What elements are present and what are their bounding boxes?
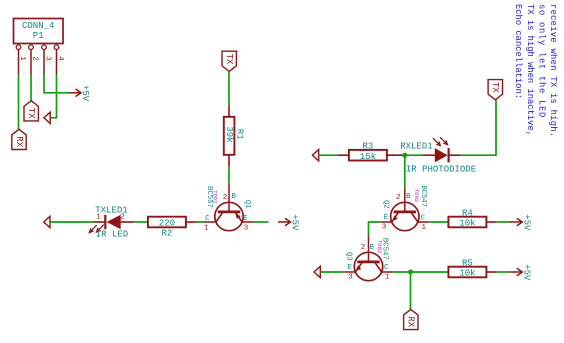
global label TX (top middle): [222, 51, 236, 71]
svg-text:10k: 10k: [459, 269, 475, 279]
wire arrow to TXLED1: [50, 221, 93, 223]
resistor R2 220: [148, 217, 186, 239]
svg-text:2: 2: [223, 194, 228, 202]
open arrow (Q3 emitter): [314, 266, 320, 277]
global label RX (bottom): [404, 309, 418, 329]
wire pin1 to RX label: [18, 75, 20, 130]
svg-text:Q2: Q2: [381, 200, 389, 209]
svg-text:R5: R5: [462, 259, 473, 269]
wire TXLED1 to R2: [134, 221, 148, 223]
svg-text:1: 1: [18, 56, 26, 61]
svg-text:IR LED: IR LED: [96, 229, 128, 239]
wire pin3 to +5V: [44, 75, 69, 93]
svg-text:R2: R2: [161, 229, 172, 239]
svg-text:receive when TX is high.: receive when TX is high.: [548, 4, 558, 137]
pin R5 right: [486, 271, 496, 273]
wire junction to RXLED1: [405, 154, 423, 156]
svg-text:TX is high when inactive,: TX is high when inactive,: [525, 4, 535, 136]
svg-text:2: 2: [396, 194, 401, 202]
photodiode RXLED1 (IR PHOTODIODE): [400, 137, 476, 175]
resistor R1 39k: [224, 117, 245, 155]
svg-text:1: 1: [204, 224, 209, 232]
pin RXLED1 cathode: [449, 154, 461, 156]
svg-text:TX: TX: [490, 82, 500, 93]
resistor R5 10k: [448, 259, 486, 279]
junction at RX node: [408, 270, 413, 275]
svg-text:R1: R1: [234, 129, 244, 140]
labels Q1: [204, 186, 251, 232]
wire R5 to +5V: [496, 271, 510, 273]
svg-text:2: 2: [120, 214, 125, 222]
svg-text:B: B: [231, 193, 236, 201]
wire R2 to Q1 collector: [198, 221, 206, 223]
svg-text:TX: TX: [224, 54, 234, 65]
pin R3 right: [387, 154, 405, 156]
labels Q2: [381, 185, 427, 232]
svg-text:E: E: [384, 214, 389, 222]
global label RX (from pin1): [12, 129, 26, 149]
power +5V (R4): [510, 214, 532, 231]
svg-text:C: C: [421, 215, 426, 223]
pin R3 left: [338, 154, 349, 156]
svg-text:+5V: +5V: [80, 85, 90, 102]
resistor R4 10k: [448, 209, 486, 229]
transistor Q3 BC547 NPN: [344, 236, 393, 281]
svg-text:10k: 10k: [459, 219, 475, 229]
svg-text:2: 2: [361, 244, 366, 252]
wire arrow to R3: [319, 154, 338, 156]
svg-text:1: 1: [96, 214, 101, 222]
svg-text:+5V: +5V: [521, 214, 531, 231]
svg-text:+5V: +5V: [521, 264, 531, 281]
svg-text:Q3: Q3: [345, 252, 353, 261]
wire junction to R5: [411, 271, 449, 273]
wire Q2 collector to R4: [429, 221, 448, 223]
wire pin2 to TX label: [30, 75, 32, 101]
open arrow (pin4): [44, 112, 50, 123]
power +5V (connector): [69, 85, 91, 102]
svg-text:3: 3: [244, 224, 249, 232]
wire R4 to +5V: [496, 221, 510, 223]
transistor Q2 BC547 NPN: [381, 187, 430, 230]
svg-text:R3: R3: [362, 142, 373, 152]
resistor R3 15k: [349, 142, 387, 162]
pin TXLED1 anode side: [93, 221, 104, 223]
wire junction to Q2 base: [404, 155, 406, 187]
svg-text:4: 4: [56, 56, 64, 61]
svg-text:+5V: +5V: [290, 214, 300, 231]
pin R1 bottom: [228, 155, 230, 167]
wire RXLED1 to TX label: [460, 100, 496, 155]
pin 4 of P1: [54, 45, 64, 75]
wire R1 to Q1 base: [228, 167, 230, 184]
svg-text:so only let the LED: so only let the LED: [537, 4, 547, 118]
svg-text:B: B: [406, 193, 411, 201]
svg-text:TO92: TO92: [413, 189, 420, 202]
svg-text:IR PHOTODIODE: IR PHOTODIODE: [406, 165, 476, 175]
pin R2 right: [186, 221, 198, 223]
svg-text:RX: RX: [14, 136, 24, 147]
svg-text:3: 3: [382, 223, 387, 231]
svg-text:Q1: Q1: [243, 200, 251, 209]
open arrow (left of TXLED1): [44, 216, 50, 227]
svg-text:3: 3: [348, 273, 353, 281]
wire Q2 emitter to Q3 base: [369, 222, 381, 236]
global label TX (from pin2): [24, 101, 38, 121]
svg-text:E: E: [243, 215, 248, 223]
pin R1 top: [228, 106, 230, 117]
svg-text:39k: 39k: [224, 126, 234, 142]
svg-text:RXLED1: RXLED1: [400, 142, 432, 152]
open arrow (left of R3): [312, 150, 318, 161]
svg-text:CONN_4: CONN_4: [22, 21, 54, 31]
power +5V (Q1 emitter): [278, 214, 300, 231]
svg-text:15k: 15k: [360, 152, 376, 162]
svg-text:RX: RX: [406, 316, 416, 327]
junction at RXLED1 node: [402, 153, 407, 158]
pin 2 of P1: [29, 45, 39, 75]
svg-text:TX: TX: [26, 108, 36, 119]
pin TXLED1 cathode side: [121, 221, 134, 223]
svg-text:Echo cancellation:: Echo cancellation:: [513, 4, 523, 99]
wire arrow to Q3 emitter: [320, 271, 344, 273]
svg-text:220: 220: [159, 219, 175, 229]
wire junction to RX label: [410, 272, 412, 309]
connector P1 CONN_4: [14, 19, 64, 44]
wire pin4 to open arrow: [50, 75, 56, 118]
transistor Q1 BC557 PNP: [205, 184, 254, 231]
svg-text:E: E: [347, 264, 352, 272]
svg-text:3: 3: [44, 56, 52, 61]
labels Q3: [345, 238, 390, 282]
svg-text:P1: P1: [33, 31, 44, 41]
svg-text:TO92: TO92: [376, 240, 383, 253]
wire Q1 emitter to +5V: [253, 221, 268, 223]
global label TX (right): [488, 80, 502, 100]
pin 3 of P1: [42, 45, 52, 75]
note text (echo cancellation): [513, 4, 558, 137]
svg-text:C: C: [205, 215, 210, 223]
wire Q3 collector to junction: [393, 271, 411, 273]
pin R4 right: [486, 221, 496, 223]
LED TXLED1 (IR LED): [89, 205, 128, 239]
svg-text:R4: R4: [462, 209, 473, 219]
power +5V (R5): [510, 264, 532, 281]
svg-text:B: B: [369, 244, 374, 252]
wire TX to R1: [228, 71, 230, 106]
svg-text:1: 1: [385, 273, 390, 281]
pin 1 of P1: [16, 45, 26, 75]
svg-text:1: 1: [422, 224, 427, 232]
svg-text:C: C: [384, 264, 389, 272]
svg-text:TO92: TO92: [212, 190, 219, 203]
svg-text:2: 2: [31, 56, 39, 61]
pin RXLED1 anode: [423, 154, 435, 156]
